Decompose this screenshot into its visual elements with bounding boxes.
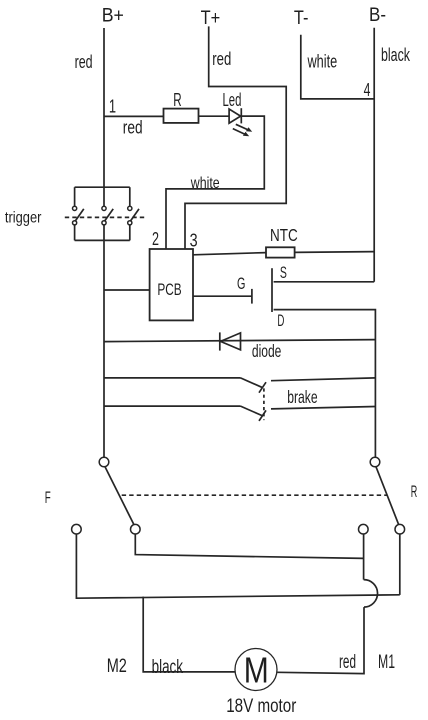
wire B- vertical xyxy=(373,28,375,282)
wire hop arc xyxy=(364,580,378,608)
svg-text:trigger: trigger xyxy=(5,209,42,226)
svg-text:2: 2 xyxy=(152,229,159,249)
wire M2 from F contact xyxy=(76,534,399,598)
svg-text:Led: Led xyxy=(223,90,242,110)
resistor R xyxy=(164,109,199,123)
svg-text:diode: diode xyxy=(252,341,282,361)
R switch common contact xyxy=(370,457,380,467)
wire node 1 to resistor xyxy=(104,115,164,117)
wire M2 from R contact xyxy=(399,534,401,595)
svg-text:R: R xyxy=(173,90,181,110)
R switch contact left xyxy=(359,524,369,534)
wire B+ vertical upper xyxy=(103,28,105,206)
wire Led out to PCB pin 2 (white) xyxy=(166,116,264,249)
svg-text:red: red xyxy=(212,48,231,69)
svg-text:red: red xyxy=(75,51,93,72)
svg-text:white: white xyxy=(307,50,337,71)
wire S to B- xyxy=(274,281,375,283)
F switch common contact xyxy=(99,457,109,467)
svg-text:T-: T- xyxy=(294,8,309,29)
trigger dashed line xyxy=(65,216,146,218)
F/R switch dashed line xyxy=(122,494,387,496)
brake switch top contact xyxy=(104,378,375,393)
svg-text:1: 1 xyxy=(109,96,116,116)
wire M2 down to motor xyxy=(143,597,235,672)
R switch contact right xyxy=(395,524,405,534)
wire R to Led xyxy=(199,115,230,117)
wire PCB to NTC xyxy=(193,253,266,255)
wire M1 from F contact xyxy=(135,534,363,558)
thermistor NTC xyxy=(266,247,295,257)
brake switch bottom contact xyxy=(104,406,375,421)
gate bar xyxy=(251,289,253,304)
wire B+ vertical lower xyxy=(103,225,105,457)
svg-text:4: 4 xyxy=(364,80,371,100)
svg-text:3: 3 xyxy=(190,230,198,250)
svg-text:R: R xyxy=(411,483,418,501)
brake dashed link xyxy=(263,388,265,420)
svg-text:T+: T+ xyxy=(201,8,221,29)
trigger switch xyxy=(65,187,146,240)
svg-text:brake: brake xyxy=(287,387,317,407)
svg-text:F: F xyxy=(45,489,51,507)
svg-text:NTC: NTC xyxy=(270,225,298,245)
svg-text:B-: B- xyxy=(369,5,386,26)
svg-text:B+: B+ xyxy=(102,6,124,27)
svg-text:red: red xyxy=(339,652,356,673)
wire diode line xyxy=(104,340,375,342)
transistor Q1 body xyxy=(271,268,273,312)
F switch contact left xyxy=(72,524,82,534)
svg-text:white: white xyxy=(190,175,220,192)
wire T+ to PCB pin 3 xyxy=(185,26,286,249)
svg-text:black: black xyxy=(152,657,184,678)
svg-text:18V motor: 18V motor xyxy=(226,696,297,717)
F switch lever xyxy=(105,467,134,525)
wire B+ to PCB left xyxy=(104,289,150,291)
svg-text:D: D xyxy=(277,311,284,330)
motor M circle xyxy=(235,649,277,691)
wire M1 from R contact xyxy=(363,534,365,580)
svg-text:M2: M2 xyxy=(107,656,127,677)
R switch lever xyxy=(376,467,399,525)
svg-text:red: red xyxy=(123,116,143,137)
wire NTC to B- xyxy=(295,251,375,254)
wire T- to B- xyxy=(301,35,374,99)
LED symbol xyxy=(229,108,252,136)
svg-text:PCB: PCB xyxy=(157,280,181,299)
svg-text:M: M xyxy=(244,650,269,691)
F switch contact right xyxy=(131,524,141,534)
svg-text:black: black xyxy=(381,44,410,65)
wire M1 down to motor xyxy=(277,607,364,674)
svg-text:S: S xyxy=(280,263,287,282)
svg-text:G: G xyxy=(237,274,245,293)
svg-text:M1: M1 xyxy=(378,652,395,673)
wire PCB to gate xyxy=(193,295,252,297)
wire D to right column xyxy=(274,310,376,458)
PCB box U1 xyxy=(150,249,193,320)
diode D1 xyxy=(220,332,241,350)
